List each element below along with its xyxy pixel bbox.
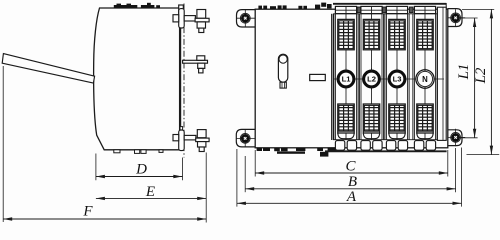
fuse column L3 contact jaw [389,133,405,139]
svg-text:L2: L2 [367,75,376,84]
terminal T2 nut [198,63,205,68]
fuse bank left border [331,14,333,140]
phase indicator L1 [338,71,354,87]
mounting plate line [180,8,182,150]
fuse column L2 bottom caps [361,141,370,151]
terminal T1 clamp plate [179,9,185,28]
mounting hole top-right [446,17,465,19]
dimension D extension lines [95,154,97,181]
phase indicator L2 [364,71,380,87]
switch capsule foot [280,82,286,88]
svg-text:C: C [345,158,356,174]
plate top bracket [179,5,184,13]
svg-text:N: N [422,75,428,84]
dimension A extension lines [236,149,238,207]
fuse column L1 upper window [338,19,354,49]
fuse column L2 contact jaw [363,133,379,139]
mounting ear bottom-left [236,129,256,147]
mounting ear top-left [237,10,257,27]
front view body [255,9,448,148]
dimension B extension lines [244,156,246,192]
operating handle [2,54,94,83]
svg-text:D: D [135,162,147,178]
dimension F line [3,218,206,220]
fuse column N contact jaw [417,133,433,139]
mounting ear bottom-right [447,130,462,146]
front bottom terminal screws [257,148,262,151]
mounting ear top-right [447,9,462,27]
svg-text:E: E [145,184,155,200]
terminal T1 bolt [197,10,206,19]
fuse column L3 side edges [384,14,386,140]
mounting hole bottom-left [236,137,255,139]
fuse column L3 lower window [389,104,405,133]
terminal T1 bar [184,16,195,21]
phase indicator L3 [389,71,405,87]
dimension F extension line left [2,66,4,222]
fuse bank top rail [333,3,446,5]
fuse column L2 center line [371,14,373,140]
fuse column N bottom caps [414,141,423,151]
fuse bank base line [333,139,446,141]
fuse column N center line [424,14,426,140]
svg-text:L3: L3 [393,75,402,84]
nameplate [310,74,326,80]
fuse bank under-cap line [333,13,446,15]
mounting hole top-left [236,17,255,19]
fuse column N lower window [417,104,433,133]
fuse column L3 center line [396,14,398,140]
dimension L2 line [490,9,492,154]
svg-text:B: B [348,174,357,190]
mounting plane centerline (dash-dot) [183,4,185,158]
fuse column N top cap [414,6,435,13]
indicator L1 crosshair ticks [345,68,347,71]
fuse column N upper window [417,19,433,49]
fuse column L2 side edges [358,14,360,140]
fuse column L2 upper window [363,19,379,49]
fuse column L1 top cap [335,6,356,13]
dimension B line [245,188,455,190]
inter-column teeth [357,7,360,13]
side view bottom feet [114,150,120,153]
terminal T3 top tab [180,127,183,130]
svg-text:L1: L1 [342,75,352,84]
dimension L1 line [474,18,476,138]
terminal T2 bolt head [197,56,205,61]
dimension L1 extension lines [458,17,478,19]
fuse column L1 bottom caps [335,141,344,151]
indicator L2 crosshair ticks [371,68,373,71]
fuse column L2 lower window [363,104,379,133]
svg-text:A: A [346,189,357,205]
terminal T2 tip [199,68,203,73]
dimension C line [255,172,448,174]
svg-text:L1: L1 [456,64,472,81]
dimension C extension lines [254,150,256,177]
fuse column L1 contact jaw [338,133,354,139]
terminal T3 bar [184,135,196,140]
fuse column L1 side edges [333,14,335,140]
fuse bank end plate [437,7,446,140]
dimension D line [96,176,182,178]
dimension E line [96,197,206,199]
svg-text:F: F [82,203,93,219]
dimension E extension line right [205,153,207,223]
terminal T3 bolt [197,130,206,138]
terminal T2 bar [183,60,208,63]
fuse column L1 lower window [338,104,354,133]
fuse column L2 top cap [361,6,382,13]
phase indicator crosshair line [334,78,445,80]
svg-text:L2: L2 [473,67,489,84]
fuse column L3 upper window [389,19,405,49]
side view body outline [94,8,180,150]
switch shaft capsule [278,54,287,82]
side view top terminal bumps [114,5,138,8]
indicator L3 crosshair ticks [396,68,398,71]
fuse bank bottom rail [325,150,447,152]
indicator N crosshair ticks [424,68,426,71]
dimension L2 extension lines [462,8,494,10]
mounting hole bottom-right [446,136,465,138]
terminal T3 left block [173,135,179,141]
fuse column L3 top cap [386,6,407,13]
terminal T3 clamp plate [179,130,185,151]
fuse column N side edges [412,14,414,140]
dimension A line [237,202,462,204]
fuse column L3 bottom caps [386,141,395,151]
neutral indicator N [416,70,434,88]
fuse column L1 center line [345,14,347,140]
terminal T1 left block [173,15,179,22]
front top terminal screws [258,6,262,10]
